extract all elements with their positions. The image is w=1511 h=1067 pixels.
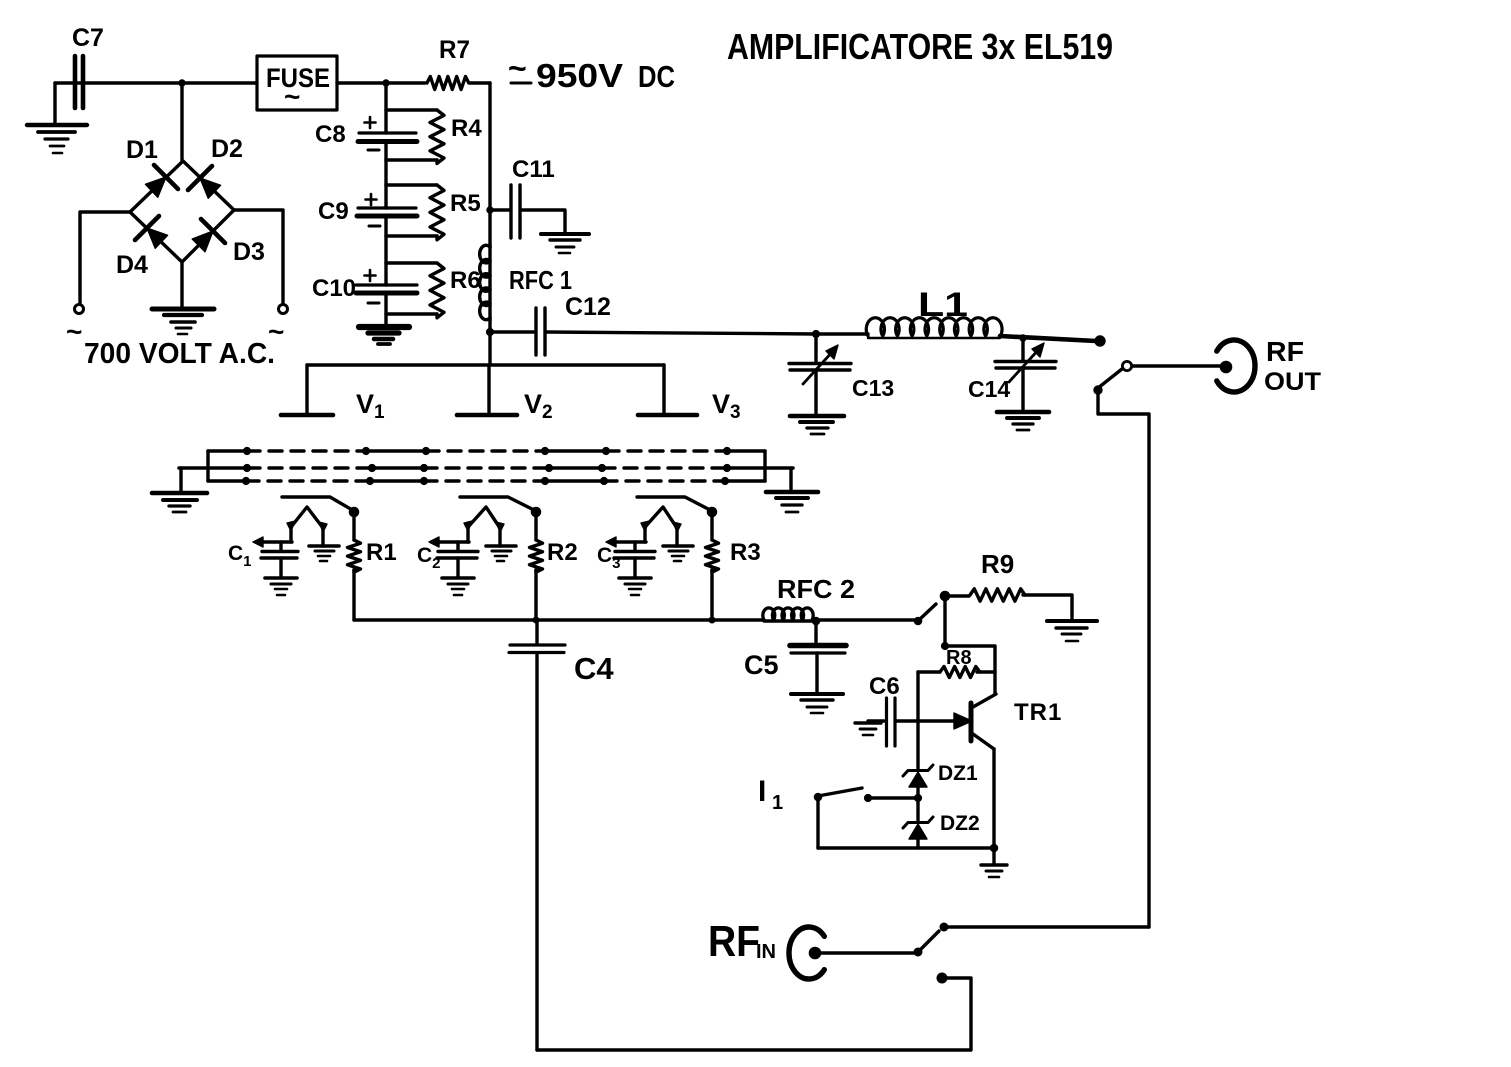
svg-text:1: 1: [772, 792, 783, 814]
node emitter ground junction: [990, 844, 997, 851]
connector RF IN: [708, 917, 824, 979]
ground: [791, 694, 843, 713]
svg-text:C12: C12: [565, 293, 611, 321]
wire grid bus right ground drop: [789, 468, 792, 491]
svg-text:C5: C5: [744, 650, 779, 680]
ground: [359, 327, 409, 344]
ground: [265, 578, 297, 595]
wire left rail bottom: [384, 293, 387, 326]
wire left rail mid2: [384, 216, 387, 285]
node bridge top junction: [179, 80, 185, 86]
svg-text:C8: C8: [315, 121, 346, 148]
wire HV rail: [488, 83, 491, 247]
capacitor C11: [490, 156, 565, 238]
wire fuse to R7: [337, 81, 425, 84]
ground: [152, 309, 214, 334]
svg-text:D2: D2: [211, 135, 243, 163]
svg-text:C11: C11: [512, 156, 555, 183]
tube V1 filament: [287, 507, 327, 546]
wire R8 rail: [945, 646, 995, 694]
wire left rail mid1: [384, 141, 387, 208]
wire RX return: [537, 978, 971, 1050]
svg-text:C4: C4: [574, 651, 614, 686]
resistor R1: [348, 512, 397, 620]
wire relay to RX line: [1098, 392, 1149, 927]
svg-text:OUT: OUT: [1264, 368, 1321, 396]
tube V3 anode: [638, 365, 741, 423]
resistor R3: [706, 512, 761, 620]
tube V2 anode: [457, 365, 553, 423]
ground: [27, 125, 87, 153]
wire TX line: [944, 925, 1149, 928]
wire RF IN to switch: [821, 951, 915, 954]
wire bridge drop: [180, 83, 183, 161]
resistor R7: [427, 36, 490, 90]
tube V1 anode: [281, 365, 385, 423]
svg-text:~: ~: [508, 50, 527, 86]
svg-text:~: ~: [284, 81, 300, 112]
svg-text:R1: R1: [366, 539, 397, 566]
svg-text:IN: IN: [756, 941, 776, 963]
wire anode header: [307, 332, 664, 365]
wire grid bus left bracket: [206, 451, 209, 481]
svg-text:C6: C6: [869, 673, 900, 700]
diode D2: [188, 135, 243, 198]
node rail junction: [383, 80, 389, 86]
ground: [855, 723, 881, 735]
fuse F1: [257, 56, 337, 112]
wire RFC2 to switch: [812, 618, 918, 621]
zener DZ2: [903, 798, 980, 848]
wire AC left stub: [80, 212, 130, 304]
capacitor C6: [868, 673, 954, 746]
svg-text:R5: R5: [450, 190, 481, 217]
node switch contact up: [1095, 336, 1105, 346]
ground: [152, 493, 207, 512]
capacitor C12: [490, 293, 611, 355]
wire bias bottom rail: [818, 846, 995, 849]
svg-text:RFC 1: RFC 1: [509, 265, 572, 295]
svg-text:D3: D3: [233, 238, 265, 266]
svg-text:950V: 950V: [536, 57, 623, 94]
svg-text:~: ~: [66, 316, 82, 347]
svg-text:RF: RF: [1266, 336, 1304, 367]
capacitor C1: [228, 537, 298, 577]
inductor RFC2: [763, 574, 855, 621]
wire grid bus row3: [208, 478, 765, 485]
svg-text:R6: R6: [450, 267, 481, 294]
svg-text:R9: R9: [981, 549, 1014, 579]
capacitor C7: [72, 24, 104, 108]
svg-text:DZ1: DZ1: [938, 762, 978, 785]
svg-text:C9: C9: [318, 198, 349, 225]
capacitor C13 variable: [789, 334, 894, 415]
node R8 rail junction: [942, 643, 949, 650]
node C13 junction: [813, 331, 820, 338]
zener DZ1: [903, 721, 978, 797]
svg-text:R4: R4: [451, 115, 482, 142]
wire C7 left drop: [53, 83, 56, 124]
switch I1: [758, 775, 918, 848]
ground: [1047, 621, 1097, 641]
node C11 junction: [487, 207, 493, 213]
wire AC right stub: [234, 210, 283, 304]
svg-text:C10: C10: [312, 275, 356, 302]
resistor R5: [386, 185, 481, 240]
resistor R8: [918, 647, 995, 678]
svg-text:D1: D1: [126, 136, 158, 164]
svg-text:DZ2: DZ2: [940, 812, 980, 835]
tube V1 grid lead: [282, 497, 358, 516]
capacitor C14 variable: [968, 338, 1056, 411]
capacitor C10: [312, 270, 417, 303]
node AC terminal left: [66, 305, 84, 348]
node R3 bus junction: [709, 617, 715, 623]
svg-text:R3: R3: [730, 539, 761, 566]
svg-text:C13: C13: [852, 375, 894, 401]
diode D3: [192, 219, 265, 266]
ground: [663, 546, 693, 561]
ground: [541, 234, 589, 253]
ground: [442, 578, 474, 595]
ground: [997, 412, 1049, 430]
connector RF OUT: [1217, 336, 1321, 396]
node C5 junction: [812, 617, 819, 624]
svg-text:TR1: TR1: [1014, 699, 1062, 726]
tube V3 grid lead: [637, 497, 716, 516]
switch S1 antenna relay: [1094, 361, 1221, 394]
capacitor C2: [417, 537, 478, 577]
ground: [766, 492, 818, 512]
wire L1 to switch: [1000, 336, 1096, 341]
capacitor C9: [318, 194, 417, 226]
wire grid bus row2: [179, 465, 793, 472]
transistor TR1: [954, 694, 1062, 749]
svg-text:AMPLIFICATORE 3x EL519: AMPLIFICATORE 3x EL519: [727, 26, 1113, 67]
wire grid bus row1: [208, 448, 765, 455]
svg-text:700 VOLT A.C.: 700 VOLT A.C.: [84, 338, 275, 370]
svg-text:C14: C14: [968, 376, 1010, 402]
wire emitter ground stub: [992, 848, 995, 864]
node AC terminal right: [268, 305, 288, 348]
diode D4: [116, 216, 168, 279]
svg-text:C7: C7: [72, 24, 104, 52]
ground: [790, 416, 844, 434]
switch S2 bias: [914, 592, 948, 624]
wire left rail top: [384, 83, 387, 133]
wire C13 to L1: [816, 332, 868, 335]
tube V2 grid lead: [460, 497, 540, 516]
node anode junction: [487, 329, 494, 336]
capacitor C5: [744, 621, 846, 693]
wire C12 to C13: [546, 332, 816, 334]
svg-text:R7: R7: [439, 36, 470, 64]
resistor R2: [530, 512, 578, 620]
svg-text:R8: R8: [946, 647, 972, 669]
ground: [309, 546, 339, 561]
resistor R6: [386, 263, 481, 318]
wire top AC feed: [55, 81, 257, 84]
ground: [619, 578, 651, 595]
wire cathode bus: [354, 618, 764, 621]
ground: [486, 546, 516, 561]
node C14 junction: [1020, 335, 1026, 341]
svg-text:RF: RF: [708, 917, 760, 966]
resistor R9: [945, 549, 1072, 620]
svg-text:D4: D4: [116, 251, 148, 279]
node zener midpoint: [915, 795, 922, 802]
inductor RFC1: [480, 245, 572, 320]
wire bridge diamond: [130, 161, 234, 262]
capacitor C4: [509, 620, 614, 1050]
wire emitter drop: [992, 749, 995, 848]
resistor R4: [386, 110, 482, 163]
diode D1: [126, 136, 178, 197]
ground: [981, 865, 1007, 877]
label 950V DC: [508, 50, 675, 94]
svg-text:I: I: [758, 775, 766, 808]
svg-text:RFC 2: RFC 2: [777, 574, 855, 604]
wire R9 tap down: [943, 596, 946, 646]
wire R8 to base rail: [916, 672, 919, 721]
tube V3 filament: [641, 507, 681, 546]
node R2 bus junction: [533, 617, 539, 623]
capacitor C8: [315, 117, 417, 150]
svg-text:R2: R2: [547, 539, 578, 566]
capacitor C3: [597, 537, 655, 577]
tube V2 filament: [464, 507, 504, 546]
wire RFC1 to node: [488, 318, 491, 332]
inductor L1: [866, 286, 1002, 338]
svg-text:L1: L1: [918, 286, 968, 324]
wire bridge bottom drop: [180, 262, 183, 307]
switch S3 input relay: [914, 923, 948, 982]
svg-text:DC: DC: [638, 59, 675, 94]
wire grid bus right bracket: [763, 451, 766, 481]
wire grid bus left ground drop: [179, 468, 182, 492]
